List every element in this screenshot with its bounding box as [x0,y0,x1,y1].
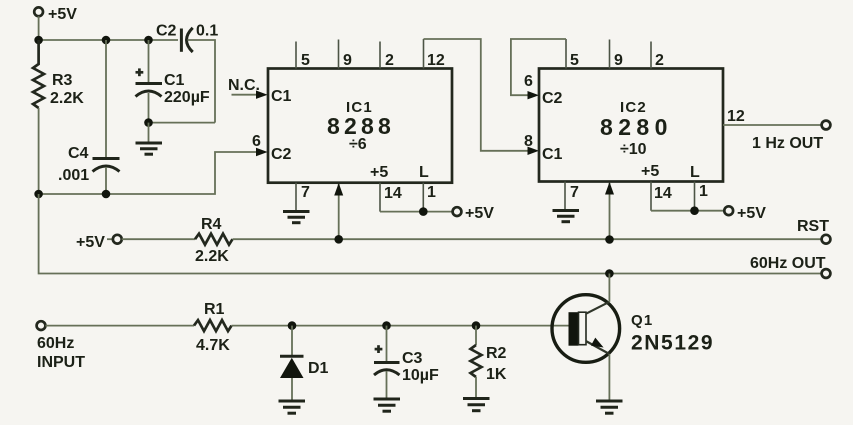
diode D1 [280,326,329,378]
svg-text:Q1: Q1 [631,312,653,329]
svg-text:60Hz: 60Hz [37,335,74,352]
pin 9 stub IC2 [610,40,624,70]
wire pins 14/1 to +5V terminal [380,211,453,213]
terminal 60Hz OUT [750,255,830,278]
svg-text:6: 6 [524,73,533,90]
arrowhead into IC1 C2 (pin 6) [256,148,268,156]
svg-text:R4: R4 [201,216,222,233]
wire Q1 collector up to 60Hz OUT [608,274,610,302]
svg-text:1 Hz OUT: 1 Hz OUT [752,135,823,152]
capacitor C1 [136,40,210,106]
pin 14 stub IC2 [641,163,672,211]
svg-text:2.2K: 2.2K [50,90,84,107]
terminal +5V (R4 feed) [76,234,122,251]
wire IC1 pin12 to IC2 pin8 C1 [424,39,534,151]
svg-text:L: L [419,164,429,181]
svg-text:÷10: ÷10 [620,141,647,158]
pin 7 stub IC2 [565,182,579,210]
wire Q1 emitter down to ground [608,354,610,401]
wire RST rail [233,238,822,240]
resistor R4 [195,216,233,265]
svg-text:4.7K: 4.7K [196,337,230,354]
svg-text:1: 1 [427,184,436,201]
node junction Q1 collector on 60Hz OUT [605,269,614,278]
svg-text:+5: +5 [370,164,388,181]
svg-text:0.1: 0.1 [196,23,218,40]
svg-text:+5V: +5V [465,205,494,222]
node junction C4 bottom [102,190,111,199]
svg-text:C2: C2 [156,23,177,40]
svg-text:2: 2 [655,52,664,69]
svg-text:7: 7 [570,184,579,201]
terminal +5V (IC1 supply) [453,205,495,222]
pin 7 stub IC1 [296,183,310,210]
node junction IC1 reset [334,235,343,244]
wire D1 to ground [291,378,293,400]
svg-text:C2: C2 [542,90,563,107]
svg-text:C1: C1 [271,88,292,105]
capacitor C3 [374,326,439,384]
svg-text:+5V: +5V [76,234,105,251]
svg-text:5: 5 [570,52,579,69]
svg-text:2: 2 [385,52,394,69]
wire +5V to R4 [122,238,195,240]
wire C1 bottom [148,93,150,123]
wire from +5V terminal down [38,16,40,40]
svg-text:C2: C2 [271,146,292,163]
svg-text:9: 9 [614,52,623,69]
node junction C4 top [102,36,111,45]
node junction D1 top [288,321,297,330]
node junction C3 top [382,321,391,330]
capacitor C4 [58,40,120,184]
wire R1 to Q1 base [232,325,569,327]
ground (IC2 pin 7) [553,211,580,222]
wire C1 bottom node to C2 drop [149,122,216,124]
svg-text:L: L [690,164,700,181]
transistor Q1 [552,295,714,363]
IC1 labels [271,88,395,163]
resistor R3 [33,40,84,108]
svg-text:8280: 8280 [600,114,673,140]
wire R2 to ground [475,377,477,398]
terminal 60Hz INPUT [37,321,86,371]
capacitor C2 [156,23,218,53]
svg-text:10µF: 10µF [402,367,439,384]
wire +5V top rail [39,39,178,41]
svg-text:N.C.: N.C. [228,77,260,94]
ground (IC1 pin 7) [283,212,310,223]
wire R3 bottom to lower node [38,108,40,194]
pin 1 stub IC1 [419,164,436,212]
node junction R2 top [472,321,481,330]
node junction C1 bottom [144,118,153,127]
svg-text:.001: .001 [58,167,89,184]
svg-text:1: 1 [699,183,708,200]
pin 12 output IC2 [723,108,822,125]
svg-text:C3: C3 [402,350,423,367]
svg-text:6: 6 [252,133,261,150]
terminal RST [797,218,830,244]
node junction pin1 IC2 [690,206,699,215]
ground (below Q1) [596,401,623,413]
svg-text:C1: C1 [542,146,563,163]
resistor R2 [471,326,507,383]
resistor R1 [194,301,232,354]
wire input to R1 [45,325,194,327]
input N.C. arrow to IC1 C1 [228,77,268,99]
terminal +5V (IC2 supply) [724,205,766,222]
pin 9 stub IC1 [339,40,353,70]
ground (below C3) [374,399,401,411]
pin 2 stub IC1 [380,42,394,70]
svg-text:÷6: ÷6 [349,136,367,153]
svg-text:R2: R2 [486,345,507,362]
wire C4 bottom [105,167,107,194]
node junction pin1 IC1 [419,207,428,216]
svg-text:+5: +5 [641,163,659,180]
svg-text:12: 12 [727,108,745,125]
reset pin wire IC2 (up arrow from RST rail) [605,182,614,240]
svg-text:14: 14 [384,185,402,202]
ground (below D1) [279,401,306,413]
svg-text:2N5129: 2N5129 [631,332,714,355]
svg-text:14: 14 [654,185,672,202]
svg-text:5: 5 [301,52,310,69]
svg-text:+5V: +5V [48,6,77,23]
ground (below R2) [463,399,490,411]
svg-text:INPUT: INPUT [37,354,85,371]
IC U2 8280 box [539,69,723,182]
svg-text:D1: D1 [308,360,329,377]
svg-text:9: 9 [343,52,352,69]
svg-text:R3: R3 [52,72,73,89]
node junction at left rail top [34,36,43,45]
pin 1 stub IC2 [690,164,708,211]
wire feedback pin5 to pin6 C2 [511,39,566,95]
node junction C1 top [144,36,153,45]
svg-text:12: 12 [427,52,445,69]
wire C2 right side to vertical drop [188,40,216,123]
node junction left rail lower [34,190,43,199]
svg-text:220µF: 220µF [164,89,210,106]
svg-text:C4: C4 [68,145,89,162]
svg-text:1K: 1K [486,366,507,383]
reset pin wire IC1 (up arrow from RST rail) [334,183,343,239]
svg-text:+5V: +5V [737,205,766,222]
arrowhead into IC2 C2 [528,91,540,99]
svg-text:2.2K: 2.2K [195,248,229,265]
wire lower horizontal to IC1 C2 input [39,152,262,194]
pin 12 IC1 with wire to IC2 C1 [424,39,445,69]
svg-text:RST: RST [797,218,829,235]
svg-text:60Hz OUT: 60Hz OUT [750,255,826,272]
pin 14 stub IC1 [370,164,402,212]
pin 5 stub IC1 [296,42,310,70]
arrowhead into IC2 C1 [528,147,540,155]
terminal +5V (top left) [34,6,77,23]
svg-text:8: 8 [524,133,533,150]
pin 2 stub IC2 [651,42,664,70]
terminal 1 Hz OUT [752,121,830,152]
wire left rail down to 60Hz OUT line [39,194,822,274]
pin 5 stub IC2 with feedback wire to C2 [566,39,579,69]
IC U1 8288 box [268,69,452,183]
node junction IC2 reset [605,235,614,244]
svg-text:C1: C1 [164,72,185,89]
svg-text:R1: R1 [204,301,225,318]
IC2 labels [542,90,673,163]
wire IC2 pins 14/1 to +5V terminal [651,210,724,212]
ground (below C1) [136,123,163,155]
wire C3 to ground [386,371,388,399]
svg-text:7: 7 [301,184,310,201]
